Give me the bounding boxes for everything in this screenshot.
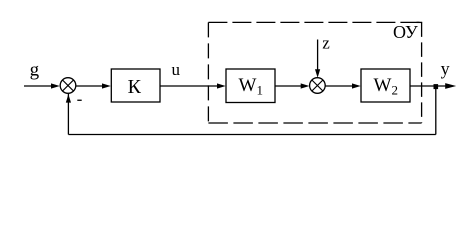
svg-text:ОУ: ОУ — [393, 22, 418, 42]
svg-text:u: u — [172, 60, 181, 79]
svg-text:y: y — [441, 59, 450, 79]
svg-text:g: g — [30, 60, 40, 81]
svg-text:К: К — [128, 76, 142, 98]
svg-text:z: z — [322, 34, 330, 53]
